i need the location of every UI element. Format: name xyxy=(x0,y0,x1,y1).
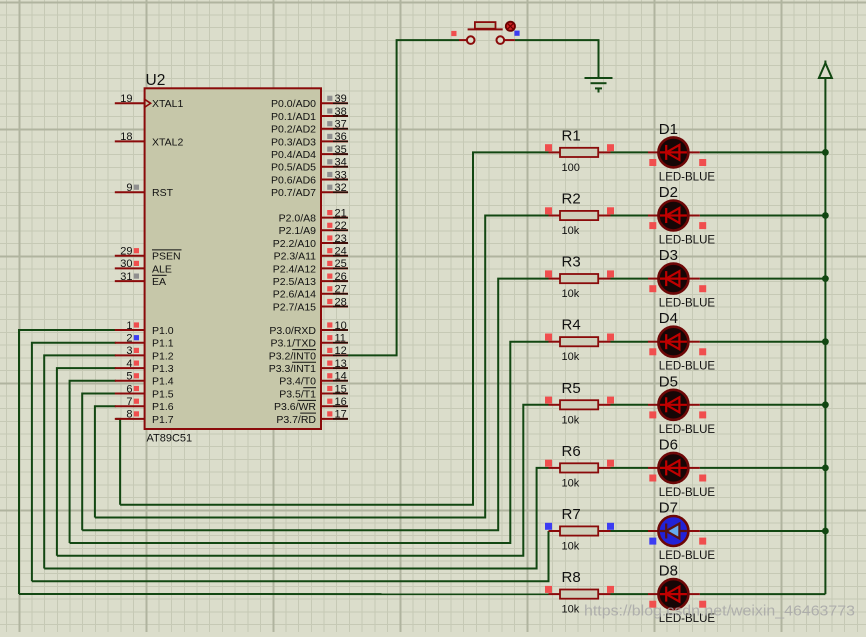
svg-text:35: 35 xyxy=(335,144,347,156)
svg-text:10: 10 xyxy=(335,320,347,332)
svg-text:P1.1: P1.1 xyxy=(152,338,174,350)
svg-text:P2.1/A9: P2.1/A9 xyxy=(279,225,317,237)
svg-text:D2: D2 xyxy=(659,184,678,201)
svg-text:P1.6: P1.6 xyxy=(152,401,174,413)
svg-text:P0.3/AD3: P0.3/AD3 xyxy=(271,136,316,148)
svg-text:39: 39 xyxy=(335,93,347,105)
svg-text:P0.1/AD1: P0.1/AD1 xyxy=(271,111,316,123)
svg-text:30: 30 xyxy=(120,258,132,270)
svg-text:4: 4 xyxy=(126,358,132,370)
svg-text:R6: R6 xyxy=(562,443,581,460)
svg-text:D3: D3 xyxy=(659,247,678,264)
svg-text:11: 11 xyxy=(335,333,346,345)
svg-text:LED-BLUE: LED-BLUE xyxy=(659,171,716,183)
svg-text:P0.2/AD2: P0.2/AD2 xyxy=(271,124,316,136)
svg-text:19: 19 xyxy=(120,93,132,105)
svg-text:17: 17 xyxy=(335,409,347,421)
svg-text:P2.5/A13: P2.5/A13 xyxy=(273,276,316,288)
svg-text:RST: RST xyxy=(152,187,174,199)
svg-text:34: 34 xyxy=(335,157,347,169)
svg-text:PSEN: PSEN xyxy=(152,251,181,263)
svg-text:P3.0/RXD: P3.0/RXD xyxy=(269,325,316,337)
svg-text:U2: U2 xyxy=(146,72,166,89)
svg-text:37: 37 xyxy=(335,119,347,131)
svg-text:100: 100 xyxy=(562,162,580,174)
svg-text:12: 12 xyxy=(335,345,347,357)
svg-text:P1.2: P1.2 xyxy=(152,350,174,362)
svg-text:P2.3/A11: P2.3/A11 xyxy=(274,251,317,263)
svg-text:P0.0/AD0: P0.0/AD0 xyxy=(271,98,316,110)
svg-text:D4: D4 xyxy=(659,310,678,327)
svg-text:15: 15 xyxy=(335,383,347,395)
svg-text:R4: R4 xyxy=(562,317,581,334)
svg-text:29: 29 xyxy=(120,246,132,258)
svg-text:10k: 10k xyxy=(562,541,580,553)
svg-text:P1.5: P1.5 xyxy=(152,388,174,400)
svg-text:ALE: ALE xyxy=(152,263,172,275)
svg-text:AT89C51: AT89C51 xyxy=(147,433,193,445)
svg-text:P2.2/A10: P2.2/A10 xyxy=(273,238,316,250)
svg-text:10k: 10k xyxy=(562,604,580,616)
svg-text:P0.5/AD5: P0.5/AD5 xyxy=(271,162,316,174)
svg-text:R3: R3 xyxy=(562,254,581,271)
svg-text:22: 22 xyxy=(335,220,347,232)
svg-text:36: 36 xyxy=(335,131,347,143)
svg-text:21: 21 xyxy=(335,207,347,219)
svg-text:28: 28 xyxy=(335,296,347,308)
svg-text:P2.4/A12: P2.4/A12 xyxy=(273,263,316,275)
svg-text:P1.7: P1.7 xyxy=(152,414,174,426)
svg-text:31: 31 xyxy=(120,271,132,283)
svg-text:D6: D6 xyxy=(659,436,678,453)
svg-text:D1: D1 xyxy=(659,121,678,138)
svg-text:P0.6/AD6: P0.6/AD6 xyxy=(271,174,316,186)
svg-text:3: 3 xyxy=(126,345,132,357)
svg-text:23: 23 xyxy=(335,233,347,245)
svg-text:P1.0: P1.0 xyxy=(152,325,174,337)
svg-text:P3.2/INT0: P3.2/INT0 xyxy=(269,350,316,362)
svg-text:6: 6 xyxy=(126,383,132,395)
svg-text:LED-BLUE: LED-BLUE xyxy=(659,550,716,562)
svg-text:LED-BLUE: LED-BLUE xyxy=(659,298,716,310)
svg-text:7: 7 xyxy=(126,396,132,408)
svg-text:13: 13 xyxy=(335,358,347,370)
svg-text:32: 32 xyxy=(335,182,347,194)
svg-text:27: 27 xyxy=(335,284,347,296)
svg-text:R5: R5 xyxy=(562,380,581,397)
svg-text:R7: R7 xyxy=(562,506,581,523)
svg-text:LED-BLUE: LED-BLUE xyxy=(659,487,716,499)
svg-text:P3.4/T0: P3.4/T0 xyxy=(279,376,316,388)
svg-text:P1.4: P1.4 xyxy=(152,376,174,388)
svg-text:8: 8 xyxy=(126,409,132,421)
svg-text:P3.3/INT1: P3.3/INT1 xyxy=(269,363,316,375)
svg-text:P2.6/A14: P2.6/A14 xyxy=(273,289,316,301)
svg-text:2: 2 xyxy=(126,333,132,345)
svg-text:XTAL2: XTAL2 xyxy=(152,136,183,148)
svg-text:P1.3: P1.3 xyxy=(152,363,174,375)
svg-text:P3.1/TXD: P3.1/TXD xyxy=(270,338,316,350)
svg-text:D5: D5 xyxy=(659,373,678,390)
svg-text:P3.7/RD: P3.7/RD xyxy=(276,414,316,426)
svg-text:R2: R2 xyxy=(562,191,581,208)
svg-text:R8: R8 xyxy=(562,569,581,586)
svg-text:P3.6/WR: P3.6/WR xyxy=(274,401,316,413)
svg-text:P0.4/AD4: P0.4/AD4 xyxy=(271,149,316,161)
svg-text:10k: 10k xyxy=(562,477,580,489)
svg-text:16: 16 xyxy=(335,396,347,408)
svg-text:25: 25 xyxy=(335,258,347,270)
svg-text:EA: EA xyxy=(152,276,166,288)
svg-text:9: 9 xyxy=(126,182,132,194)
svg-text:XTAL1: XTAL1 xyxy=(152,98,183,110)
svg-text:LED-BLUE: LED-BLUE xyxy=(659,424,716,436)
svg-text:14: 14 xyxy=(335,371,347,383)
svg-text:38: 38 xyxy=(335,106,347,118)
svg-text:P3.5/T1: P3.5/T1 xyxy=(279,388,316,400)
svg-text:18: 18 xyxy=(120,131,132,143)
svg-text:D7: D7 xyxy=(659,500,678,517)
svg-text:LED-BLUE: LED-BLUE xyxy=(659,361,716,373)
svg-text:10k: 10k xyxy=(562,225,580,237)
svg-text:P2.7/A15: P2.7/A15 xyxy=(273,301,316,313)
svg-text:5: 5 xyxy=(126,371,132,383)
svg-text:R1: R1 xyxy=(562,127,581,144)
svg-text:https://blog.csdn.net/weixin_4: https://blog.csdn.net/weixin_46463773 xyxy=(584,603,855,620)
svg-text:LED-BLUE: LED-BLUE xyxy=(659,235,716,247)
svg-text:26: 26 xyxy=(335,271,347,283)
svg-text:D8: D8 xyxy=(659,563,678,580)
svg-text:10k: 10k xyxy=(562,414,580,426)
svg-text:P0.7/AD7: P0.7/AD7 xyxy=(271,187,316,199)
svg-text:33: 33 xyxy=(335,169,347,181)
svg-text:10k: 10k xyxy=(562,288,580,300)
svg-text:P2.0/A8: P2.0/A8 xyxy=(279,213,317,225)
svg-text:10k: 10k xyxy=(562,351,580,363)
svg-text:1: 1 xyxy=(126,320,132,332)
svg-text:24: 24 xyxy=(335,246,347,258)
